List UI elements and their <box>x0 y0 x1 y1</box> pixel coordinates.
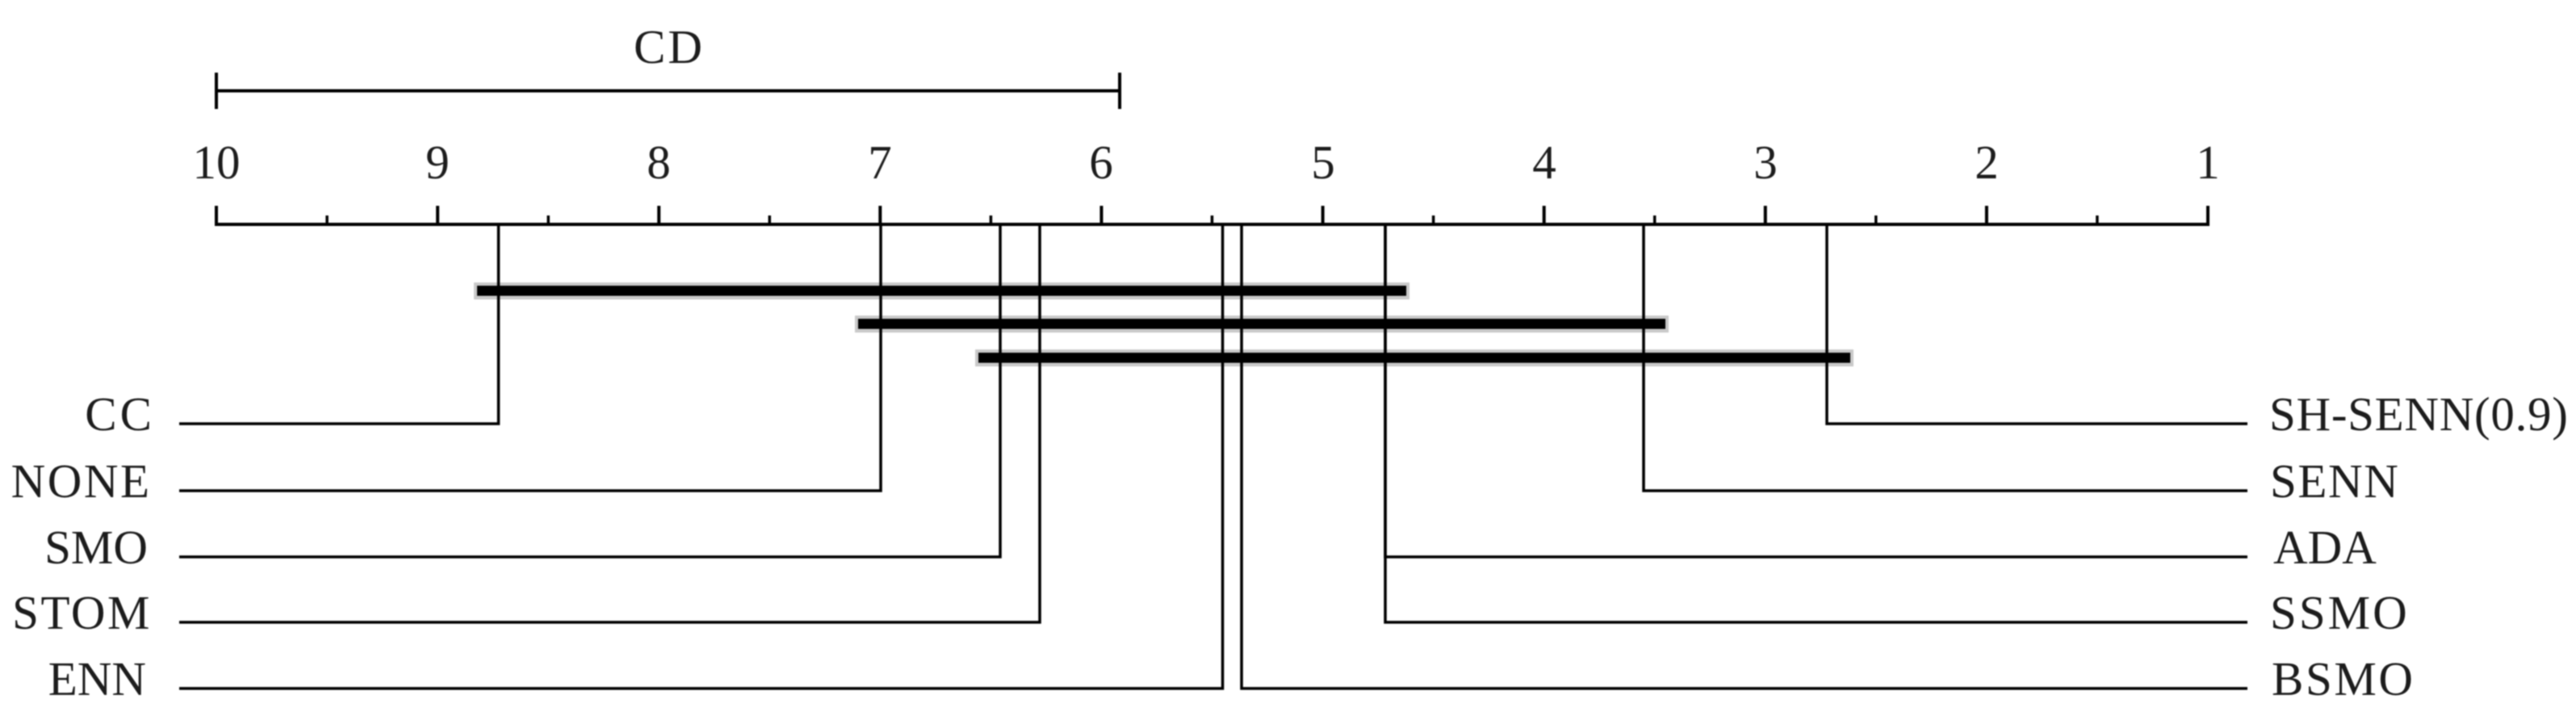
svg-text:6: 6 <box>1089 136 1113 189</box>
left labels <box>11 387 155 705</box>
svg-text:1: 1 <box>2196 136 2220 189</box>
svg-text:SMO: SMO <box>44 521 148 574</box>
svg-text:NONE: NONE <box>11 454 152 508</box>
clique bar halos <box>474 282 1853 366</box>
NONE <box>179 226 881 491</box>
svg-text:SSMO: SSMO <box>2270 586 2410 639</box>
clique bars <box>477 286 1850 363</box>
svg-text:CD: CD <box>634 20 705 73</box>
axis line <box>215 223 2209 226</box>
ADA <box>1385 226 2247 557</box>
svg-text:ENN: ENN <box>48 652 146 705</box>
SSMO <box>1385 226 2247 622</box>
svg-text:ADA: ADA <box>2273 521 2377 574</box>
svg-text:STOM: STOM <box>12 586 152 639</box>
CD bracket <box>216 73 1120 109</box>
axis numbers <box>193 136 2220 189</box>
svg-text:7: 7 <box>868 136 892 189</box>
STOM <box>179 226 1040 622</box>
svg-text:5: 5 <box>1311 136 1335 189</box>
svg-text:10: 10 <box>193 136 241 189</box>
SENN <box>1644 226 2247 491</box>
svg-text:SH-SENN(0.9): SH-SENN(0.9) <box>2269 387 2569 441</box>
svg-text:4: 4 <box>1532 136 1556 189</box>
minor ticks <box>327 215 2097 226</box>
CC <box>179 226 499 424</box>
SH-SENN <box>1827 226 2247 424</box>
svg-text:CC: CC <box>85 387 155 441</box>
SMO <box>179 226 1000 557</box>
BSMO <box>1242 226 2247 688</box>
major ticks <box>216 206 2208 226</box>
algorithm connector lines <box>179 226 2247 688</box>
right labels <box>2269 387 2569 705</box>
svg-text:3: 3 <box>1753 136 1778 189</box>
svg-text:8: 8 <box>647 136 671 189</box>
svg-text:9: 9 <box>425 136 450 189</box>
ENN <box>179 226 1223 688</box>
svg-text:SENN: SENN <box>2270 454 2399 508</box>
svg-text:2: 2 <box>1975 136 1999 189</box>
svg-text:BSMO: BSMO <box>2272 652 2415 705</box>
